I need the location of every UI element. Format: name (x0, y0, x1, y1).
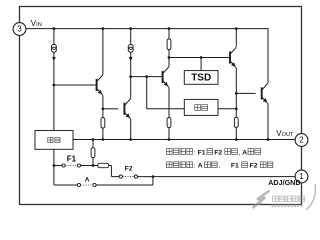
wire VIN rail (26, 28, 268, 30)
wire Q5 emitter down (267, 104, 269, 140)
fuse F2 (119, 175, 137, 178)
wire Q2 base (103, 108, 118, 110)
svg-text:A: A (85, 176, 90, 183)
wire I2 down (130, 52, 132, 98)
transistor Q2 (124, 99, 130, 120)
node R5 tap (92, 138, 95, 141)
fuse A (77, 183, 96, 186)
resistor R2 (101, 118, 105, 128)
svg-text:3: 3 (17, 25, 21, 34)
svg-text:F1: F1 (231, 163, 239, 170)
wire F1 jog to F2 (109, 166, 120, 177)
node rail-Q4 collector (235, 27, 238, 30)
node TSD tap (200, 56, 203, 59)
wire F2 to pin1 (138, 176, 296, 178)
fuse F1 (62, 164, 81, 167)
wire base line to Q3 (131, 76, 163, 78)
wire Q5 base (236, 92, 255, 94)
node limit sense (235, 107, 238, 110)
wire I1 to bandgap (53, 52, 55, 130)
svg-text:,: , (239, 149, 241, 156)
svg-text:F1: F1 (198, 149, 206, 156)
svg-text:ADJ/GND: ADJ/GND (268, 178, 300, 187)
transistor Q1 (97, 75, 103, 96)
svg-text:2: 2 (299, 136, 303, 145)
wire R4 to VOUT line (235, 127, 237, 139)
node R5-R6 (92, 164, 95, 167)
wire bandgap bottom (53, 149, 55, 165)
label ADJ/GND (268, 178, 300, 187)
pin 2 (VOUT terminal) (295, 134, 308, 147)
node F2-A junction (152, 175, 155, 178)
svg-text:VIN: VIN (31, 19, 42, 28)
wire rail to R1 (168, 29, 170, 39)
resistor R6 (98, 163, 109, 167)
wire Q1 emitter down (102, 95, 104, 117)
pin 1 (ADJ/GND terminal) (295, 170, 308, 183)
wire left leg down (54, 166, 77, 186)
node R3 foot (168, 138, 171, 141)
node rail-I2 (129, 27, 132, 30)
svg-text:A: A (198, 163, 203, 170)
label F2 (125, 165, 133, 172)
wire sense drop (147, 77, 185, 109)
transistor Q4 (230, 47, 236, 68)
label VIN (31, 19, 42, 28)
wire Q4 emitter down (235, 68, 237, 118)
resistor R4 (234, 117, 238, 127)
wire Q1 base (54, 84, 97, 86)
wire A to junction (96, 177, 153, 185)
node rail-I1 (53, 27, 56, 30)
node I2-Q3 base junction (129, 75, 132, 78)
transistor Q3 (163, 67, 169, 88)
svg-text:F2: F2 (214, 149, 222, 156)
node R1-Q3-Q4 junction (168, 56, 171, 59)
svg-text::: : (194, 149, 196, 156)
node Q2 emitter foot (129, 138, 132, 141)
wire Q4 base line (169, 57, 230, 59)
current source I1 (51, 44, 56, 61)
wire rail to I1 (53, 29, 55, 45)
wire Q3 emitter down (168, 87, 170, 117)
transistor Q5 (262, 83, 268, 104)
node R2 foot (102, 138, 105, 141)
svg-text:VOUT: VOUT (276, 129, 294, 138)
watermark (elecfans logo) (253, 184, 316, 210)
label A (85, 176, 90, 183)
current source I2 (128, 44, 133, 61)
resistor R5 (91, 148, 95, 158)
caption line 1 (fixed version: F1 and F2 connected, A open) (166, 149, 260, 157)
node Q5 emitter foot (267, 138, 270, 141)
svg-text:F1: F1 (67, 155, 77, 164)
wire VOUT line (73, 139, 295, 141)
resistor R1 (167, 39, 171, 50)
current-limit block U3 (184, 99, 218, 115)
wire R2 to VOUT line (102, 128, 104, 140)
wire rail to Q1 collector (102, 29, 104, 75)
svg-text::: : (194, 163, 196, 170)
label F1 (67, 155, 77, 164)
wire Q2 emitter down (130, 119, 132, 139)
wire divider top (92, 140, 94, 148)
wire R3 to VOUT line (168, 128, 170, 140)
node Q1 base tap (53, 84, 56, 87)
svg-text:F2: F2 (125, 165, 133, 172)
wire rail to Q4 collector (235, 29, 237, 47)
IC outline box (20, 7, 302, 205)
wire rail to I2 (130, 29, 132, 45)
node rail-Q1 collector (102, 27, 105, 30)
pin 3 (VIN terminal) (13, 23, 26, 36)
wire TSD top (200, 58, 202, 71)
node Q5 base tap (235, 92, 238, 95)
wire rail corner to Q5 collector (267, 28, 269, 83)
resistor R3 (167, 118, 171, 128)
svg-text:F2: F2 (250, 163, 258, 170)
node Q2 base tap (102, 107, 105, 110)
TSD block U2 (184, 71, 218, 85)
caption line 2 (adjustable version: A connected, F1 and F2 open) (166, 162, 273, 170)
wire R5 to F1 wire (92, 158, 94, 166)
bandgap block U1 (35, 131, 73, 150)
node current-limit branch (145, 75, 148, 78)
node bandgap-F1 (53, 164, 56, 167)
svg-text:TSD: TSD (191, 73, 211, 84)
node R4 foot (235, 138, 238, 141)
label VOUT (276, 129, 294, 138)
wire current-limit out (218, 108, 236, 110)
wire F1 segment (54, 165, 98, 167)
svg-text:A: A (242, 149, 247, 156)
node rail-R1 (168, 27, 171, 30)
wire R1 to node (168, 50, 170, 67)
svg-text:,: , (219, 163, 221, 170)
